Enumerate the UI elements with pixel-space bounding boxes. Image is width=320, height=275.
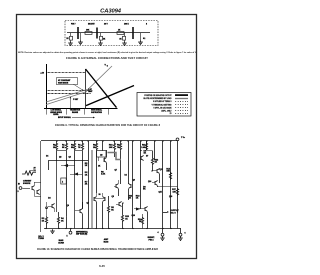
svg-text:D7: D7 [146, 156, 148, 158]
svg-text:FIGURE 9. TYPICAL OPERATING CH: FIGURE 9. TYPICAL OPERATING CHARACTERIST… [55, 124, 161, 127]
svg-text:RANGE: RANGE [72, 111, 79, 114]
svg-text:FIGURE 8. EXTERNAL CONNECTIONS: FIGURE 8. EXTERNAL CONNECTIONS AND TEST … [66, 57, 149, 60]
svg-text:Q3: Q3 [69, 157, 71, 159]
svg-text:100 K: 100 K [124, 23, 129, 25]
svg-text:Q9: Q9 [133, 180, 135, 182]
svg-text:Q10: Q10 [132, 215, 135, 217]
svg-text:D1: D1 [34, 170, 36, 172]
svg-text:Q7: Q7 [115, 170, 117, 172]
svg-text:TERM: TERM [38, 238, 44, 240]
svg-text:Q5: Q5 [87, 203, 89, 205]
svg-text:FIGURE 10. SCHEMATIC DIAGRAM O: FIGURE 10. SCHEMATIC DIAGRAM OF CA3094 S… [37, 248, 158, 251]
svg-text:Q3: Q3 [100, 154, 102, 156]
svg-text:10K: 10K [166, 171, 170, 173]
svg-text:V THRESHOLD SETTING: V THRESHOLD SETTING [152, 104, 173, 106]
svg-text:NOTE: Resistor values are adju: NOTE: Resistor values are adjusted to ob… [18, 51, 197, 54]
svg-text:1.6K: 1.6K [101, 174, 106, 176]
svg-text:NO. 8: NO. 8 [170, 212, 176, 214]
svg-text:4: 4 [158, 231, 159, 234]
svg-text:PIN 4: PIN 4 [148, 238, 154, 241]
svg-text:8: 8 [146, 23, 147, 25]
svg-text:6: 6 [185, 233, 186, 235]
svg-text:Z: Z [62, 181, 63, 183]
svg-text:PIN 7: PIN 7 [71, 23, 76, 25]
svg-text:V APPLIED AT TERM. 5: V APPLIED AT TERM. 5 [153, 100, 172, 103]
svg-text:Q14: Q14 [148, 180, 151, 183]
svg-text:Q13: Q13 [160, 169, 163, 171]
svg-text:Q2: Q2 [59, 157, 61, 159]
svg-text:BIAS: BIAS [104, 240, 109, 243]
svg-text:30: 30 [99, 194, 101, 196]
svg-text:MOUNT: MOUNT [88, 23, 95, 25]
svg-text:Q8: Q8 [112, 196, 114, 198]
svg-text:V APPL. IN SAT. MODE: V APPL. IN SAT. MODE [153, 107, 172, 110]
svg-text:Q15: Q15 [159, 192, 162, 194]
svg-text:2.4K: 2.4K [141, 146, 146, 149]
svg-text:INPUT SIGNAL: INPUT SIGNAL [58, 116, 72, 119]
svg-text:Q16: Q16 [169, 196, 172, 198]
svg-text:SLOPE AS DETERMINED BY LOAD: SLOPE AS DETERMINED BY LOAD [143, 97, 172, 100]
svg-text:3: 3 [18, 191, 19, 193]
svg-text:POSITIVE OR NEGATIVE OUTPUT: POSITIVE OR NEGATIVE OUTPUT [144, 94, 172, 97]
svg-text:CURR: CURR [58, 242, 64, 244]
svg-text:5: 5 [67, 236, 68, 238]
svg-text:Q4: Q4 [67, 204, 69, 207]
svg-text:6-45: 6-45 [99, 264, 105, 268]
svg-text:D4: D4 [46, 155, 48, 158]
svg-text:GAIN MODE: GAIN MODE [58, 81, 69, 84]
svg-text:LEVEL: LEVEL [53, 114, 58, 116]
svg-text:SOURCE: SOURCE [23, 183, 31, 185]
svg-text:AMPL. ONLY: AMPL. ONLY [161, 110, 172, 113]
svg-text:SATURATION: SATURATION [91, 111, 103, 114]
svg-text:D4: D4 [125, 174, 127, 177]
svg-text:0.1: 0.1 [143, 38, 145, 40]
svg-text:10K: 10K [109, 147, 113, 149]
svg-text:CA3094: CA3094 [100, 9, 122, 15]
svg-text:P SET: P SET [73, 99, 79, 101]
